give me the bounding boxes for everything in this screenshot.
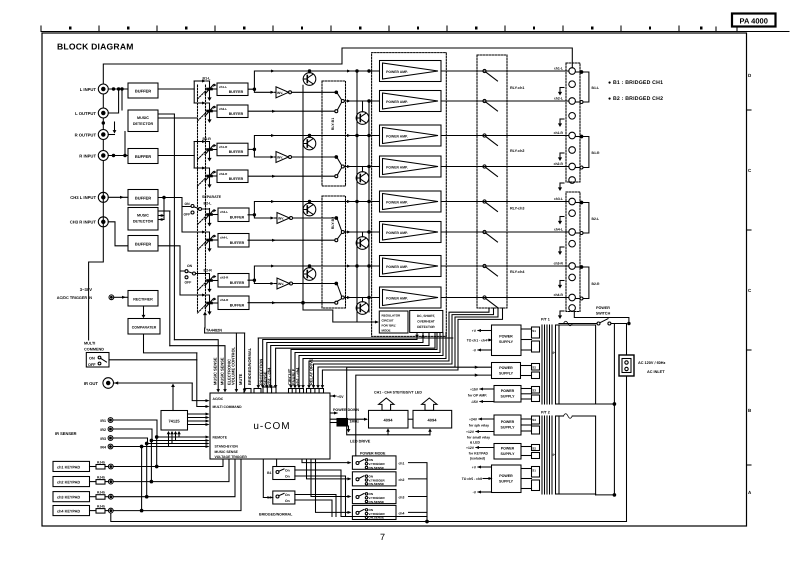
power supply PS6	[492, 465, 522, 493]
svg-text:STAND-BY/ON: STAND-BY/ON	[215, 445, 239, 449]
svg-text:+12V: +12V	[466, 446, 475, 450]
svg-text:ch1-L: ch1-L	[554, 67, 563, 71]
svg-text:SUPPLY: SUPPLY	[500, 452, 515, 456]
svg-text:BUFFER: BUFFER	[229, 112, 244, 116]
wires B1 B2 to bus	[295, 470, 427, 517]
PS1 output labels	[467, 329, 487, 353]
svg-text:POWER AMP.: POWER AMP.	[386, 70, 408, 74]
wire IR4 to remote	[113, 446, 208, 448]
volume pot ch1-L	[205, 83, 217, 101]
ch1-R buffer	[217, 143, 248, 156]
ch4-L buffer	[218, 234, 249, 248]
wire buffer R to pots	[158, 155, 194, 157]
connector L INPUT	[98, 84, 108, 94]
buffer U1 (L input)	[128, 83, 158, 98]
svg-text:RJ45: RJ45	[97, 505, 105, 509]
svg-text:MUTE: MUTE	[238, 373, 243, 385]
relay switch ch4-L	[483, 230, 498, 242]
transistor Q4 stubs	[362, 167, 364, 172]
relay contact B1 ch2-L	[335, 91, 345, 113]
wire top bus L INPUT to ch1-L terminal	[103, 48, 572, 84]
wires protection sense	[263, 333, 417, 388]
svg-text:ch1-L: ch1-L	[219, 85, 227, 89]
svg-text:On: On	[285, 469, 290, 473]
separate switch B2-R	[185, 264, 196, 284]
wire input chain verticals	[102, 94, 104, 108]
wire regulator input	[357, 321, 378, 323]
svg-text:IR OUT: IR OUT	[84, 381, 99, 386]
svg-text:BUFFER: BUFFER	[135, 195, 151, 200]
op-amp INV1	[276, 87, 292, 98]
terminal gnd 4	[569, 177, 576, 184]
wire keypad ch4 to u-COM	[113, 459, 241, 511]
svg-text:P/T 1: P/T 1	[541, 318, 550, 322]
bridge bracket B2-L	[580, 201, 599, 234]
svg-text:VOLTAGE TRIGGER: VOLTAGE TRIGGER	[215, 455, 248, 459]
svg-text:IR2: IR2	[100, 428, 106, 432]
svg-text:FOR 'BRL': FOR 'BRL'	[382, 324, 397, 328]
74125 ic	[161, 411, 188, 431]
svg-text:CIRCUIT: CIRCUIT	[382, 319, 394, 323]
power mode switch ch2	[352, 472, 404, 486]
svg-text:OFF: OFF	[88, 363, 96, 367]
svg-text:AC/DC TRIGGER IN: AC/DC TRIGGER IN	[57, 296, 92, 300]
bus vertical x369	[368, 101, 370, 312]
secondary taps S2' (PS5)	[521, 445, 540, 459]
bus vertical EVC dotted 1	[197, 85, 199, 313]
wire ch4-L buffer to bridge relay	[248, 239, 335, 241]
svg-text:BUFFER: BUFFER	[230, 304, 245, 308]
terminal ch4-R	[569, 294, 576, 301]
wire trigger to rectifier	[114, 296, 128, 298]
svg-text:-V: -V	[473, 490, 477, 494]
relay contact B2 ch4-L	[335, 217, 345, 242]
svg-text:BUFFER: BUFFER	[135, 154, 151, 159]
wire keypad ch1 to u-COM	[113, 459, 223, 467]
svg-text:POWER AMP.: POWER AMP.	[386, 200, 408, 204]
svg-text:DETECTOR: DETECTOR	[133, 122, 154, 126]
ruler ticks	[41, 26, 737, 32]
svg-text:B1-R: B1-R	[203, 137, 212, 141]
transistor Q6	[356, 237, 369, 250]
power switch contact	[597, 322, 600, 325]
svg-text:ON.SENSE: ON.SENSE	[369, 482, 385, 486]
buffer U2 (R input)	[128, 149, 158, 164]
transistor Q8	[356, 302, 369, 315]
svg-text:+5V: +5V	[337, 395, 344, 399]
svg-text:BUFFER: BUFFER	[135, 89, 151, 94]
svg-text:POWER: POWER	[501, 389, 515, 393]
wire ch2-L buffer to bridge relay	[248, 110, 335, 112]
wire CH3 L INPUT to buffer	[108, 196, 128, 198]
power supply PS4	[494, 415, 521, 435]
power amp ch4-R	[380, 287, 442, 308]
ch2-R buffer	[217, 170, 248, 183]
power amp ch4-L	[380, 222, 442, 243]
wire L INPUT to buffer	[108, 88, 128, 90]
terminal gnd 8	[569, 305, 576, 312]
primary loop P/T2	[559, 415, 564, 417]
svg-text:BLOCK DIAGRAM: BLOCK DIAGRAM	[57, 42, 134, 52]
wire ch1-L buffer to inverter and up-over	[248, 71, 380, 89]
fuse F1	[564, 321, 573, 326]
wire ch1-L inverter output to bridge relay	[292, 91, 336, 93]
LED block arrow 1	[379, 398, 394, 410]
volume pot ch3-R	[205, 275, 217, 293]
svg-text:AC/DC: AC/DC	[213, 397, 224, 401]
ch3-R buffer	[218, 274, 249, 288]
PS6 output labels	[462, 465, 482, 494]
svg-text:VOLUME CONTROL: VOLUME CONTROL	[231, 346, 236, 385]
wire ch2-L relay to power amp	[344, 100, 379, 102]
svg-text:RLY-B1: RLY-B1	[331, 118, 335, 130]
svg-text:B: B	[748, 408, 752, 413]
+5V stub	[330, 395, 336, 397]
svg-text:ch2-R: ch2-R	[554, 162, 564, 166]
relay contact B1 ch2-R	[335, 156, 345, 178]
comparator	[128, 319, 160, 335]
microcontroller u-COM	[210, 393, 330, 459]
wire PA outputs to terminals	[441, 70, 569, 72]
svg-text:POWER: POWER	[499, 366, 513, 370]
svg-text:BUFFER: BUFFER	[230, 216, 245, 220]
svg-text:RLY-ch1: RLY-ch1	[510, 86, 524, 90]
svg-text:ch4-R: ch4-R	[554, 293, 564, 297]
svg-text:POWER MODE: POWER MODE	[360, 452, 386, 456]
svg-text:+15V: +15V	[470, 387, 479, 391]
ground arrows	[558, 88, 564, 96]
wire ch4-R relay to power amp	[344, 297, 379, 299]
wires 74125 to u-COM	[188, 413, 209, 415]
svg-text:1MHz: 1MHz	[350, 420, 360, 424]
wire speaker box to ac switch	[574, 312, 629, 324]
PS4 output labels	[466, 417, 490, 444]
svg-text:for small relay: for small relay	[467, 435, 490, 439]
wire R INPUT column down to multi commend	[89, 161, 104, 341]
svg-text:BUFFER: BUFFER	[229, 177, 244, 181]
op-amp INV4	[277, 278, 293, 289]
wire keypad ch3 to u-COM	[113, 459, 235, 497]
regulator circuit box	[379, 311, 408, 333]
power amp ch2-R	[380, 156, 442, 177]
svg-text:+V: +V	[472, 329, 477, 333]
power mode switch ch4	[352, 505, 404, 519]
wire CH3 R INPUT to buffer	[108, 222, 128, 246]
wire multi commend to u-COM	[109, 359, 197, 361]
svg-text:S1: S1	[532, 468, 536, 472]
svg-text:● B1 : BRIDGED CH1: ● B1 : BRIDGED CH1	[608, 80, 663, 86]
wire IR3 to remote	[113, 438, 208, 444]
svg-text:SUPPLY: SUPPLY	[499, 480, 514, 484]
wire bridged/normal	[258, 337, 453, 339]
svg-text:RJ45: RJ45	[97, 491, 105, 495]
separate switch B2-L	[184, 202, 202, 217]
wire ch3-R buffer to inverter and up-over	[248, 266, 380, 280]
keypad ch4	[53, 506, 90, 516]
bridge bracket B2-R	[580, 266, 600, 300]
svg-text:REGULATOR: REGULATOR	[382, 314, 402, 318]
svg-text:S3: S3	[532, 388, 536, 392]
terminal net labels	[554, 67, 564, 298]
relay switch ch1-L	[483, 69, 498, 81]
wire electronic volume control to u-COM	[205, 332, 245, 334]
svg-text:ch4-L: ch4-L	[220, 236, 228, 240]
svg-text:POWER AMP.: POWER AMP.	[386, 100, 408, 104]
transformer P/T1 core/windings	[541, 325, 543, 404]
terminal gnd 2	[569, 113, 576, 120]
terminal ch1-R	[569, 132, 576, 139]
wire IR OUT line	[114, 382, 193, 384]
ch1-L buffer	[217, 83, 248, 96]
svg-text:AC INLET: AC INLET	[647, 370, 665, 374]
svg-text:DETECTOR: DETECTOR	[133, 220, 154, 224]
svg-text:SUPPLY: SUPPLY	[500, 426, 515, 430]
LED block arrow 2	[422, 398, 437, 410]
wires relay drive	[309, 308, 489, 387]
svg-text:BUFFER: BUFFER	[230, 281, 245, 285]
connector IR OUT	[103, 378, 114, 389]
svg-text:ch1-R: ch1-R	[219, 145, 228, 149]
svg-text:-15V: -15V	[471, 400, 479, 404]
relay switch ch1-R	[483, 134, 498, 146]
power supply PS2	[492, 363, 521, 379]
svg-text:TO ch5 - ch8: TO ch5 - ch8	[462, 477, 482, 481]
svg-text:BUFFER: BUFFER	[135, 241, 151, 246]
svg-text:POWER AMP.: POWER AMP.	[386, 265, 408, 269]
secondary taps S1' (PS6)	[521, 467, 540, 491]
svg-text:BRIDGED/NORMAL: BRIDGED/NORMAL	[259, 513, 293, 517]
volume pot ch4-L	[205, 234, 217, 252]
svg-text:RJ45: RJ45	[97, 461, 105, 465]
svg-text:ON: ON	[185, 202, 191, 206]
buffer U3 (CH3 L)	[128, 190, 158, 206]
svg-text:IR3: IR3	[100, 437, 106, 441]
svg-text:POWER: POWER	[499, 474, 513, 478]
op-amp INV3	[277, 213, 293, 224]
svg-text:IR SENSER: IR SENSER	[55, 431, 77, 436]
svg-text:On: On	[285, 499, 290, 503]
wire ch2-R relay to power amp	[344, 166, 379, 168]
wires u-COM to power mode switches	[302, 459, 350, 463]
svg-text:AC 120V / 60Hz: AC 120V / 60Hz	[638, 361, 666, 365]
transistor Q2	[356, 112, 369, 125]
ruler numbers	[69, 27, 703, 30]
svg-text:CH3 L INPUT: CH3 L INPUT	[70, 195, 96, 200]
connector L OUTPUT	[98, 108, 108, 118]
svg-text:ch1: ch1	[399, 462, 405, 466]
op-amp INV2	[276, 152, 292, 163]
transistor Q6 stubs	[362, 232, 364, 237]
PS3 output labels	[468, 387, 487, 404]
svg-text:SEPARATE: SEPARATE	[202, 195, 222, 199]
svg-text:ch3-R: ch3-R	[220, 276, 229, 280]
svg-text:S2: S2	[532, 446, 536, 450]
wires 74125 bottom pins	[168, 433, 170, 447]
relay switch ch2-R	[483, 165, 498, 177]
bracket stubs	[575, 71, 580, 73]
transistor Q4	[356, 172, 369, 185]
svg-text:ON.SENSE: ON.SENSE	[369, 500, 385, 504]
svg-text:4094: 4094	[428, 418, 438, 423]
transistor Q5 stubs	[309, 202, 311, 204]
svg-text:ch1-R: ch1-R	[554, 131, 564, 135]
connector R OUTPUT	[98, 130, 108, 140]
rectifier	[128, 291, 158, 307]
primary loop P/T1	[559, 325, 596, 404]
svg-text:B1-L: B1-L	[592, 86, 600, 90]
svg-text:MUSIC: MUSIC	[137, 116, 149, 120]
svg-text:ch2 KEYPAD: ch2 KEYPAD	[57, 480, 80, 484]
svg-text:MUSIC SENSE: MUSIC SENSE	[215, 450, 239, 454]
wire ch4-L relay to power amp	[344, 231, 379, 233]
terminal gnd 1	[569, 81, 576, 88]
svg-text:ch2-L: ch2-L	[219, 107, 227, 111]
wires power mode rows to bottom bus	[409, 463, 428, 522]
svg-text:OVERHEAT: OVERHEAT	[417, 320, 435, 324]
svg-text:BUFFER: BUFFER	[229, 90, 244, 94]
wire rectifier to comparator	[143, 306, 145, 317]
wire music detector 2 ports	[163, 198, 165, 216]
svg-text:u-COM: u-COM	[253, 421, 290, 432]
svg-text:MUSIC SENSE: MUSIC SENSE	[213, 357, 218, 385]
output relay dashed box	[477, 55, 507, 308]
svg-text:POWER: POWER	[499, 335, 513, 339]
transistor Q8 stubs	[362, 298, 364, 302]
wire L OUTPUT stub	[108, 89, 118, 113]
svg-text:B1-L: B1-L	[203, 77, 212, 81]
bus vertical EVC dotted 2	[205, 85, 207, 311]
transistor Q3 stubs	[309, 136, 311, 138]
wire u-COM to 4094	[330, 418, 367, 420]
power mode switch ch1	[352, 456, 404, 470]
bridged/normal switch B2	[273, 491, 295, 504]
crystal X1 1MHz	[330, 422, 340, 424]
dashed pot control lines	[198, 91, 206, 313]
terminal ch3-R	[569, 263, 576, 270]
svg-text:RECTIFIER: RECTIFIER	[133, 297, 153, 301]
wire bottom bus	[111, 513, 627, 522]
svg-text:B2-L: B2-L	[204, 202, 213, 206]
wire ch1-R buffer to inverter and up-over	[248, 136, 380, 150]
svg-text:RLY-ch4: RLY-ch4	[510, 270, 525, 274]
ch3-L buffer	[218, 208, 249, 222]
svg-text:& LED: & LED	[470, 440, 481, 444]
svg-text:B1-R: B1-R	[592, 151, 600, 155]
terminal gnd 3	[569, 147, 576, 154]
power amp ch1-L	[380, 61, 442, 82]
svg-text:RLY-ch3: RLY-ch3	[510, 207, 524, 211]
svg-text:MODE: MODE	[382, 329, 391, 333]
AC line with fuse and switch contacts	[559, 323, 576, 325]
svg-text:ON.SENSE: ON.SENSE	[369, 466, 385, 470]
svg-text:for KEYPAD: for KEYPAD	[469, 451, 489, 455]
svg-text:B1: B1	[267, 471, 271, 475]
volume pot ch3-L	[205, 209, 217, 227]
secondary taps S3 (PS3)	[521, 387, 540, 402]
rotated bus labels above u-COM	[213, 346, 314, 385]
relay contact B2 ch4-R	[335, 282, 345, 304]
svg-text:+24V: +24V	[469, 417, 478, 421]
AC inlet connector	[619, 355, 634, 376]
u-COM top pin headers	[244, 387, 324, 393]
power supply PS1	[492, 325, 522, 356]
svg-text:MULTI: MULTI	[84, 342, 95, 346]
svg-text:ch4 KEYPAD: ch4 KEYPAD	[57, 509, 80, 513]
dc short overheat detector box	[410, 311, 443, 333]
svg-text:-V: -V	[473, 348, 477, 352]
svg-text:S3: S3	[532, 418, 536, 422]
music detector 1	[128, 110, 158, 132]
svg-text:MULTI COMMAND: MULTI COMMAND	[213, 405, 243, 409]
fuse F2	[564, 414, 573, 419]
svg-text:POWER: POWER	[596, 306, 610, 310]
transformer P/T1 primary winding	[556, 325, 560, 404]
wire ch4-R buffer to bridge relay	[248, 302, 335, 304]
secondary taps S1 (PS1)	[521, 327, 540, 352]
terminal gnd 5	[569, 210, 576, 217]
svg-text:P/T 2: P/T 2	[541, 411, 550, 415]
svg-text:ch4: ch4	[399, 511, 405, 515]
svg-text:COMPARATER: COMPARATER	[132, 325, 157, 329]
svg-text:RLY-ch2: RLY-ch2	[510, 149, 524, 153]
secondary taps S2 (PS2)	[521, 364, 540, 379]
svg-text:+12V: +12V	[466, 430, 475, 434]
svg-text:ch3-R: ch3-R	[554, 262, 564, 266]
svg-text:L OUTPUT: L OUTPUT	[75, 111, 96, 116]
wire IR2 to remote	[113, 429, 208, 441]
bridged/normal switch B1	[273, 467, 295, 480]
svg-text:ch2-L: ch2-L	[554, 97, 563, 101]
svg-text:IR4: IR4	[100, 445, 106, 449]
svg-text:+V: +V	[472, 465, 477, 469]
svg-text:CH1 - CH4 STBY/BS/VT LED: CH1 - CH4 STBY/BS/VT LED	[374, 391, 422, 395]
transistor Q7	[303, 268, 316, 281]
border frame	[42, 33, 747, 526]
wire buffer CH3R through separate switch to pots	[158, 246, 185, 271]
relay switch ch3-L	[483, 200, 498, 212]
svg-text:ch1 KEYPAD: ch1 KEYPAD	[57, 465, 80, 469]
power supply PS3	[494, 386, 521, 403]
svg-text:TO ch1 - ch4: TO ch1 - ch4	[467, 338, 487, 342]
power amp ch3-R	[380, 256, 442, 277]
volume pot ch1-R	[205, 144, 217, 162]
svg-text:ON: ON	[89, 357, 95, 361]
wire 74125 output to IR line	[172, 385, 174, 411]
ch4-R buffer	[218, 296, 249, 310]
svg-text:RLY-B2: RLY-B2	[331, 217, 335, 229]
svg-text:COMMEND: COMMEND	[84, 348, 104, 352]
wire buffer CH3L through separate switch to pots	[158, 198, 190, 207]
wire buffer L to pots	[158, 88, 194, 90]
transistor Q5	[303, 203, 316, 216]
keypad ch3	[53, 492, 90, 502]
u-COM left pin labels	[213, 397, 248, 459]
svg-text:BRIDGED/NORMAL: BRIDGED/NORMAL	[247, 347, 252, 385]
power amp module dashed enclosure	[372, 53, 447, 337]
svg-text:for OP AMP.: for OP AMP.	[468, 393, 487, 397]
svg-text:IR1: IR1	[100, 419, 106, 423]
right edge zone marks	[747, 110, 752, 465]
keypad ch2	[53, 477, 90, 487]
electronic volume control arrow	[204, 315, 206, 328]
svg-text:D: D	[748, 73, 752, 78]
svg-text:POWER: POWER	[501, 447, 515, 451]
svg-text:ch3 KEYPAD: ch3 KEYPAD	[57, 496, 80, 500]
terminal ch4-L	[569, 229, 576, 236]
svg-text:POWER AMP.: POWER AMP.	[386, 165, 408, 169]
svg-text:POWER AMP.: POWER AMP.	[386, 296, 408, 300]
ruler line	[42, 31, 789, 33]
